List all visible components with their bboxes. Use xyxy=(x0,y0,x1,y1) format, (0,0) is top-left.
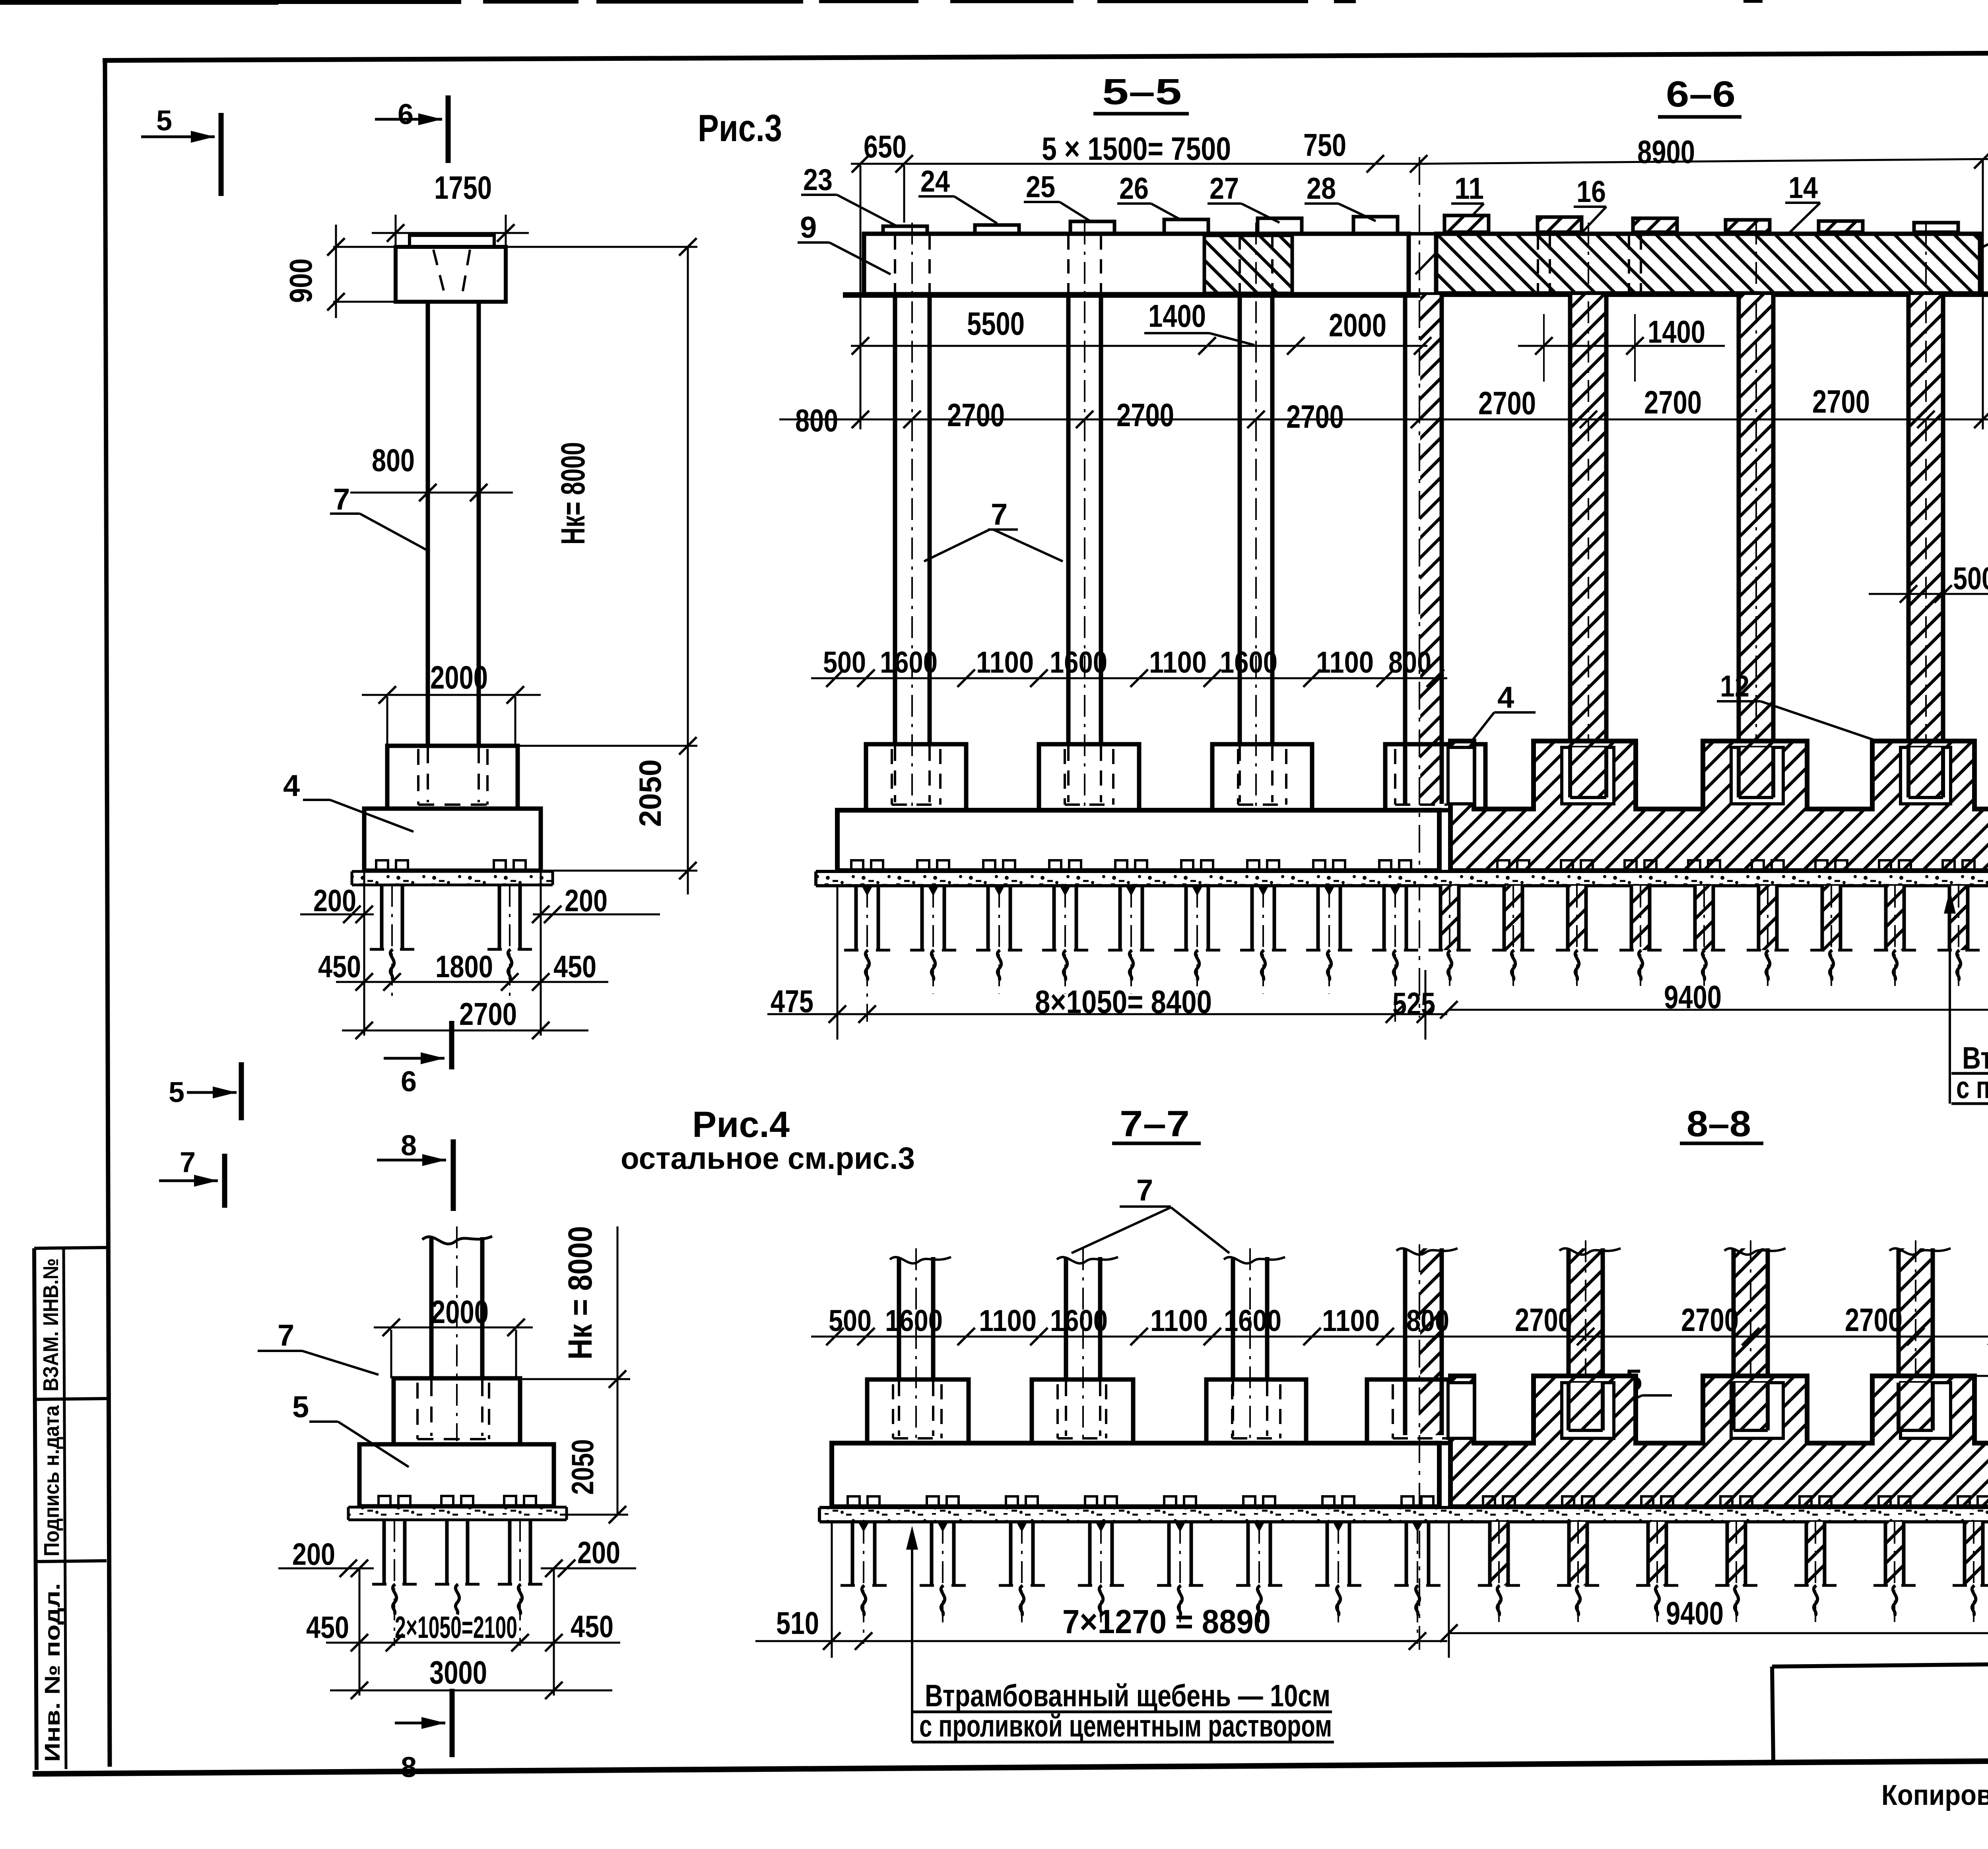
fig3 pile stirrups xyxy=(376,860,388,871)
svg-text:1800: 1800 xyxy=(435,949,493,984)
svg-text:2000: 2000 xyxy=(1329,307,1386,343)
svg-text:2700: 2700 xyxy=(1515,1302,1573,1338)
pad 9 on 6-6 beam white xyxy=(1914,223,1958,232)
svg-text:200: 200 xyxy=(565,883,608,918)
socket in upstand B (8-8) xyxy=(1562,1383,1614,1438)
fig4 dim 200 right line xyxy=(541,1568,636,1570)
fig4 section marker 8 top tick xyxy=(451,1139,456,1211)
pile cap block B1 (5-5) xyxy=(866,744,966,810)
title 7-7 underline xyxy=(1112,1142,1201,1145)
column C5 into socket xyxy=(1572,747,1605,797)
title 5-5 underline xyxy=(1093,112,1189,116)
B2 socket dashed xyxy=(1064,749,1066,805)
svg-text:450: 450 xyxy=(571,1609,613,1644)
fig4 gravel strip xyxy=(348,1507,567,1520)
svg-text:500: 500 xyxy=(823,646,866,679)
fig4 column centerline xyxy=(456,1226,458,1441)
fig3 ext lines for 900 xyxy=(333,246,398,248)
top dim line 5-5 xyxy=(851,163,1427,165)
label 16 leader xyxy=(1574,206,1606,208)
svg-text:9: 9 xyxy=(800,211,817,244)
svg-text:2×1050=2100: 2×1050=2100 xyxy=(395,1610,517,1645)
svg-text:8900: 8900 xyxy=(1637,134,1695,170)
fig4 column break squiggle xyxy=(422,1236,492,1244)
column C4 divider half-hatched xyxy=(1420,295,1440,804)
svg-text:200: 200 xyxy=(577,1535,620,1570)
column C7 (6-6) hatched xyxy=(1908,295,1943,797)
label 24 leader xyxy=(918,195,954,198)
dim 1400 left leader xyxy=(1209,333,1254,345)
column C6 into socket xyxy=(1740,747,1772,797)
fig4 label 7 leader xyxy=(258,1350,302,1352)
fig3 gravel strip xyxy=(352,871,553,885)
piles 5-5 white xyxy=(851,860,863,871)
frame top border xyxy=(103,51,1988,60)
fig3 hidden column lines in cap xyxy=(433,250,446,300)
fig4 ext line slab bottom right xyxy=(554,1514,628,1516)
fig4 foundation slab xyxy=(359,1444,554,1506)
column C3 centerline xyxy=(1255,223,1257,807)
fig4 label 5 leader xyxy=(338,1422,409,1467)
cap beam 5-5 bottom thick line xyxy=(843,292,1439,298)
svg-text:остальное см.рис.3: остальное см.рис.3 xyxy=(621,1141,915,1176)
svg-text:200: 200 xyxy=(313,883,356,918)
label 27 leader xyxy=(1208,202,1241,205)
fig4 section marker 7 top tick xyxy=(222,1154,227,1208)
top dim line 6-6 8900 xyxy=(1419,159,1988,164)
stub column S2 (7-7) xyxy=(1064,1257,1068,1379)
label 7 bottom leaders xyxy=(1072,1207,1171,1253)
svg-text:800: 800 xyxy=(1406,1304,1449,1338)
svg-text:14: 14 xyxy=(1788,171,1818,205)
note line1 underline bottom xyxy=(912,1711,1332,1713)
fig3 dim 1750 line xyxy=(372,232,529,234)
svg-text:5 × 1500= 7500: 5 × 1500= 7500 xyxy=(1042,131,1231,167)
svg-text:5500: 5500 xyxy=(967,306,1025,342)
dim row bottom figure line xyxy=(811,1336,1988,1338)
fig3 label 7 leader xyxy=(330,512,360,515)
svg-text:7: 7 xyxy=(333,483,350,516)
title block top edge xyxy=(1772,1659,1988,1667)
stub column S3 (7-7) xyxy=(1231,1257,1235,1379)
title 6-6 underline xyxy=(1658,115,1741,119)
fig4 section marker 8 bottom tick xyxy=(450,1689,455,1757)
fig3 ext lines for 1750 xyxy=(395,215,397,248)
column C1 centerline xyxy=(911,223,913,807)
ext verticals bottom dims 7-7 xyxy=(831,1523,833,1658)
fig4 dim 200 left line xyxy=(278,1568,374,1570)
stub column S5 (8-8) hatched xyxy=(1569,1248,1603,1435)
fig4 hidden column in socket xyxy=(430,1380,433,1436)
section divider axis xyxy=(1419,157,1420,1018)
svg-text:6: 6 xyxy=(401,1066,417,1098)
svg-text:8: 8 xyxy=(401,1130,417,1162)
svg-text:25: 25 xyxy=(1026,170,1055,204)
stub S5 into socket xyxy=(1570,1383,1601,1430)
svg-text:1100: 1100 xyxy=(1149,646,1207,679)
svg-text:Рис.4: Рис.4 xyxy=(692,1104,790,1145)
label 26 leader xyxy=(1117,202,1151,205)
beam top line across divider gap xyxy=(1408,232,1437,236)
hidden pile pair A in 6-6 beam xyxy=(1537,235,1539,293)
svg-text:7: 7 xyxy=(991,498,1008,532)
frame bottom border xyxy=(33,1757,1988,1774)
svg-text:450: 450 xyxy=(553,949,596,984)
label 12 leader xyxy=(1717,700,1761,702)
fig3 label 4 leader xyxy=(303,799,330,801)
svg-text:500: 500 xyxy=(829,1304,872,1338)
fig3 pedestal block xyxy=(387,746,518,809)
gravel strip top figure xyxy=(816,871,1988,886)
cap beam 6-6 hatched xyxy=(1436,234,1980,293)
fig4 column shaft xyxy=(429,1237,434,1378)
fig3 dim 2050 line ticks xyxy=(679,862,697,879)
svg-text:510: 510 xyxy=(776,1605,819,1641)
svg-text:750: 750 xyxy=(1303,127,1346,163)
note leader vertical bottom xyxy=(911,1538,913,1742)
socket in upstand A (6-6) xyxy=(1448,747,1474,804)
svg-text:2700: 2700 xyxy=(1845,1302,1903,1338)
stamp column outer border xyxy=(34,1248,37,1770)
fig3 dim 900 line xyxy=(335,225,337,318)
fig4 ext verticals slab corners xyxy=(359,1568,361,1696)
svg-text:Инв. № подл.: Инв. № подл. xyxy=(41,1583,64,1762)
stamp inner divider vertical xyxy=(64,1248,66,1769)
svg-text:5: 5 xyxy=(169,1077,184,1108)
svg-text:2700: 2700 xyxy=(947,397,1005,433)
foundation slab 7-7 xyxy=(832,1443,1439,1507)
fig3 ext lines for 2000 xyxy=(386,697,388,746)
svg-text:5: 5 xyxy=(156,105,172,137)
column C2 (5-5) xyxy=(1066,295,1071,744)
fig3 dim Hk line xyxy=(687,247,689,746)
svg-text:5: 5 xyxy=(292,1390,309,1424)
svg-text:2700: 2700 xyxy=(1681,1302,1739,1338)
svg-text:Втрамбованный щебень — 10см: Втрамбованный щебень — 10см xyxy=(925,1678,1330,1713)
monolithic foundation 8-8 xyxy=(1450,1376,1988,1507)
svg-text:2700: 2700 xyxy=(1116,397,1174,433)
svg-text:7: 7 xyxy=(1136,1174,1153,1207)
label 23 leader xyxy=(801,194,837,196)
column C2 centerline xyxy=(1084,223,1085,807)
svg-text:450: 450 xyxy=(318,949,361,984)
dim 9400 top line xyxy=(1449,1009,1988,1011)
label 4 leader 6-6 xyxy=(1494,711,1536,714)
svg-text:2700: 2700 xyxy=(1478,385,1536,421)
fig3 column shaft xyxy=(426,302,430,746)
fig3 pile 2 xyxy=(498,885,501,949)
fig3 section marker 6 bottom line xyxy=(384,1057,445,1060)
fig4 ext verticals for 2000 xyxy=(390,1330,392,1378)
svg-text:12: 12 xyxy=(1720,669,1749,703)
svg-text:Рис.3: Рис.3 xyxy=(698,107,782,149)
note line2 underline top xyxy=(1951,1102,1988,1105)
svg-text:1100: 1100 xyxy=(1150,1304,1208,1338)
socket in upstand A (8-8) xyxy=(1448,1383,1474,1438)
svg-text:1100: 1100 xyxy=(1316,646,1374,679)
fig4 label 5 underline xyxy=(309,1420,338,1423)
svg-text:800: 800 xyxy=(372,442,415,478)
svg-text:24: 24 xyxy=(920,165,950,198)
section divider axis bottom xyxy=(1419,1244,1420,1650)
B2 hidden column xyxy=(1067,746,1070,802)
fig3 ext line cap top to Hk dim xyxy=(506,246,697,248)
ext line 2274 pad23 xyxy=(903,165,905,223)
svg-text:200: 200 xyxy=(292,1537,335,1572)
stub column S1 (7-7) xyxy=(897,1257,901,1379)
stub column S6 (8-8) hatched xyxy=(1734,1248,1768,1435)
frame left border xyxy=(105,60,110,1767)
title 8-8 underline xyxy=(1680,1142,1763,1145)
svg-text:8–8: 8–8 xyxy=(1687,1104,1751,1144)
dim 9400 bottom line xyxy=(1449,1632,1988,1634)
note leader vertical top xyxy=(1949,902,1951,1104)
socket in upstand B (6-6) xyxy=(1562,747,1614,804)
svg-text:1100: 1100 xyxy=(976,646,1034,679)
fig4 dim 2000 line xyxy=(374,1327,533,1329)
column C6 centerline xyxy=(1755,223,1757,804)
gravel strip bottom figure xyxy=(819,1508,1988,1522)
fig3 hidden column in socket xyxy=(427,747,429,802)
fig4 pedestal block xyxy=(394,1378,520,1444)
note line1 underline top xyxy=(1951,1072,1988,1075)
label 9 left leader xyxy=(798,241,829,244)
scan artifact band top xyxy=(0,0,278,5)
monolithic joint block in beam xyxy=(1204,235,1292,293)
fig4 dim Hk line xyxy=(617,1226,619,1515)
fig3 ext verticals slab corners xyxy=(363,873,365,1036)
socket in upstand C (8-8) xyxy=(1731,1383,1783,1438)
hidden pile pair B in 6-6 beam xyxy=(1628,235,1630,293)
fig3 section marker 5 top line xyxy=(141,136,215,138)
fig4 dim 3000 line xyxy=(330,1690,612,1692)
svg-text:26: 26 xyxy=(1119,172,1149,206)
svg-text:2700: 2700 xyxy=(1644,384,1702,421)
pads on 6-6 cap beam hatched xyxy=(1444,215,1489,232)
label 7 leaders xyxy=(988,528,1018,531)
socket in upstand C (6-6) xyxy=(1731,747,1783,804)
svg-text:27: 27 xyxy=(1209,172,1239,206)
column C7 into socket xyxy=(1910,747,1941,797)
svg-text:525: 525 xyxy=(1392,986,1435,1021)
svg-text:1600: 1600 xyxy=(1050,1304,1108,1338)
svg-text:2050: 2050 xyxy=(633,759,668,827)
hidden column in beam C2 xyxy=(1067,235,1070,293)
fig3 section marker 6 top tick xyxy=(446,95,451,163)
svg-text:23: 23 xyxy=(803,163,833,197)
fig4 pile 3 xyxy=(508,1520,512,1584)
svg-text:2700: 2700 xyxy=(459,996,517,1032)
stamp divider 1 xyxy=(35,1399,107,1399)
dim 500 line col7 xyxy=(1869,593,1988,595)
B3 hidden column xyxy=(1239,746,1241,802)
svg-text:Нк= 8000: Нк= 8000 xyxy=(554,442,592,545)
fig4 pile 2 xyxy=(445,1520,449,1584)
svg-text:800: 800 xyxy=(1388,646,1431,679)
title block left edge xyxy=(1772,1667,1773,1762)
fig4 section marker 8 top line xyxy=(377,1159,446,1162)
svg-text:2050: 2050 xyxy=(565,1439,600,1495)
svg-text:6: 6 xyxy=(398,99,414,130)
svg-text:ВЗАМ. ИНВ.№: ВЗАМ. ИНВ.№ xyxy=(39,1258,63,1391)
column C5 centerline xyxy=(1588,223,1589,804)
svg-text:1600: 1600 xyxy=(1220,646,1277,679)
fig3 socket dashed xyxy=(417,749,419,805)
fig3 dim 200 right line xyxy=(533,914,660,916)
svg-text:6–6: 6–6 xyxy=(1666,74,1736,114)
svg-text:8: 8 xyxy=(401,1752,417,1783)
svg-text:11: 11 xyxy=(1454,172,1484,206)
svg-text:1600: 1600 xyxy=(880,646,938,679)
svg-text:500: 500 xyxy=(1953,561,1988,596)
dim row bottom 7-7 line xyxy=(755,1640,1447,1642)
fig3 section marker 6 top line xyxy=(375,118,442,121)
fig3 dim 200 left line xyxy=(300,914,374,916)
pads on 5-5 cap beam xyxy=(883,226,927,234)
B1 socket dashed xyxy=(891,749,893,805)
svg-text:с проливкой цементным растворо: с проливкой цементным раствором xyxy=(919,1708,1332,1743)
svg-text:Нк = 8000: Нк = 8000 xyxy=(561,1226,599,1360)
stamp column top edge xyxy=(34,1248,107,1248)
svg-text:7–7: 7–7 xyxy=(1120,1104,1190,1144)
label 25 leader xyxy=(1024,201,1060,203)
label 5 bottom leader xyxy=(1547,1395,1642,1440)
fig3 section marker 5 bottom tick xyxy=(239,1062,244,1120)
hidden column in beam C1 xyxy=(894,235,896,293)
svg-text:900: 900 xyxy=(283,258,318,303)
pile cap block B3 (5-5) xyxy=(1212,744,1312,810)
column C1 (5-5) xyxy=(893,295,897,744)
svg-text:1600: 1600 xyxy=(1224,1304,1281,1338)
pile cap block B2 (5-5) xyxy=(1039,744,1139,810)
dim 1400 left underline xyxy=(1144,332,1209,334)
svg-text:28: 28 xyxy=(1307,172,1336,206)
fig3 ext line slab bottom to dim xyxy=(541,870,697,872)
svg-text:4: 4 xyxy=(283,769,300,803)
note line2 underline bottom xyxy=(912,1741,1334,1744)
fig3 dim 2700 line xyxy=(342,1030,588,1032)
dim row1 6-6 line xyxy=(1518,345,1725,347)
hidden column in beam C3 xyxy=(1239,235,1241,293)
stub column S4 divider half-hatched xyxy=(1420,1248,1440,1435)
svg-text:1400: 1400 xyxy=(1648,314,1705,349)
stub S6 into socket xyxy=(1735,1383,1766,1430)
stamp divider 2 xyxy=(35,1561,107,1562)
fig4 dims 450 2100 450 line xyxy=(326,1642,620,1644)
svg-text:5–5: 5–5 xyxy=(1102,72,1182,112)
dim row caps 5-5 line xyxy=(811,677,1447,679)
svg-text:2700: 2700 xyxy=(1286,399,1344,435)
dim row2 line xyxy=(779,419,1988,421)
column C7 centerline xyxy=(1925,223,1927,804)
fig3 bearing plate on cap xyxy=(410,235,494,247)
svg-text:7×1270 = 8890: 7×1270 = 8890 xyxy=(1062,1603,1271,1640)
fig3 dim 800 line xyxy=(350,492,513,494)
B1 hidden column xyxy=(894,746,896,802)
cap beam 5-5 xyxy=(864,234,1409,294)
column C6 (6-6) hatched xyxy=(1739,295,1773,797)
pile extension ticks row1 xyxy=(1543,314,1545,382)
svg-text:4: 4 xyxy=(1497,681,1514,714)
B3 socket dashed xyxy=(1237,749,1239,805)
piles 7-7 white xyxy=(848,1496,860,1508)
cap beam 6-6 bottom thick line xyxy=(1436,291,1988,297)
fig3 dim 2000 line xyxy=(362,694,541,696)
B4 socket dashed xyxy=(1394,749,1396,805)
svg-text:2000: 2000 xyxy=(431,1294,489,1330)
svg-text:1750: 1750 xyxy=(434,170,492,206)
svg-text:Копировал Тип: Копировал Тип xyxy=(1881,1779,1988,1811)
pile cap block B3 (7-7) xyxy=(1206,1379,1306,1443)
dim row1 5-5 line xyxy=(851,345,1427,347)
fig3 section marker 5 bottom line xyxy=(187,1091,237,1094)
svg-text:2000: 2000 xyxy=(430,660,488,696)
fig3 pier cap xyxy=(396,247,506,302)
svg-text:2700: 2700 xyxy=(1812,384,1870,420)
fig4 pile 1 xyxy=(382,1520,386,1584)
label 7 bottom underline xyxy=(1120,1205,1171,1208)
pile cap block B4 (7-7) xyxy=(1367,1379,1464,1443)
fig4 section marker 8 bottom line xyxy=(395,1722,445,1725)
label 28 leader xyxy=(1305,202,1338,205)
piles 6-6 hatched xyxy=(1444,886,1455,896)
svg-text:1600: 1600 xyxy=(1050,646,1107,679)
fig4 socket dashed xyxy=(416,1383,419,1439)
svg-text:7: 7 xyxy=(278,1319,294,1352)
pile cap block B4 (5-5) xyxy=(1385,744,1485,810)
svg-text:1600: 1600 xyxy=(885,1304,943,1338)
svg-text:с проливкой цементным растворо: с проливкой цементным раствором xyxy=(1956,1070,1988,1105)
foundation slab 5-5 xyxy=(837,810,1439,871)
svg-text:450: 450 xyxy=(306,1610,349,1645)
svg-text:650: 650 xyxy=(864,129,907,164)
socket in upstand D (6-6) xyxy=(1901,747,1951,804)
svg-text:1100: 1100 xyxy=(979,1304,1037,1338)
fig3 pile 1 xyxy=(380,885,384,949)
piles 8-8 hatched xyxy=(1483,1496,1495,1508)
fig3 section marker 5 top tick xyxy=(219,113,224,196)
dim row bottom 5-5 line xyxy=(767,1013,1447,1015)
svg-text:1100: 1100 xyxy=(1322,1304,1380,1338)
column C3 (5-5) xyxy=(1238,295,1242,744)
ext line right 8900 and 800 xyxy=(1982,160,1984,429)
stub S7 into socket xyxy=(1900,1383,1931,1430)
pile cap block B1 (7-7) xyxy=(867,1379,969,1443)
svg-text:7: 7 xyxy=(180,1147,196,1178)
fig3 dims 450 1800 450 line xyxy=(336,981,608,983)
label 14 leader xyxy=(1785,202,1820,204)
fig4 ext line block top to Hk dim xyxy=(521,1378,630,1380)
pile cap block B2 (7-7) xyxy=(1032,1379,1133,1443)
svg-text:Подпись н.дата: Подпись н.дата xyxy=(40,1405,64,1556)
fig3 ext line block top to Hk dim xyxy=(518,745,697,747)
svg-text:16: 16 xyxy=(1576,175,1606,209)
ext verticals bottom dims 5-5 xyxy=(837,887,839,1040)
socket in upstand D (8-8) xyxy=(1901,1383,1951,1438)
column C5 (6-6) hatched xyxy=(1570,295,1606,797)
ext line left 650 xyxy=(860,165,862,429)
label 11 leader xyxy=(1451,202,1484,205)
monolithic foundation 6-6 xyxy=(1450,741,1988,871)
fig4 pile stirrups xyxy=(379,1496,390,1507)
svg-text:9400: 9400 xyxy=(1666,1595,1724,1632)
label 5 bottom underline xyxy=(1642,1394,1672,1397)
svg-text:3000: 3000 xyxy=(429,1655,487,1691)
svg-text:1400: 1400 xyxy=(1148,298,1206,334)
fig3 foundation slab xyxy=(364,809,541,871)
stub column S7 (8-8) hatched xyxy=(1899,1248,1933,1435)
ext lines 8-8 right dims xyxy=(1974,1375,1988,1377)
